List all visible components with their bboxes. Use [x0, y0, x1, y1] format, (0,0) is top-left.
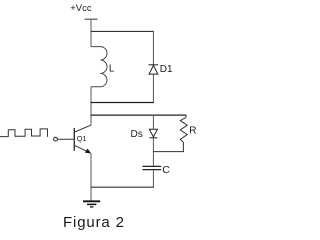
wire node rail upper — [91, 102, 154, 104]
wire top rail to D1 — [91, 30, 154, 32]
input terminal circle — [54, 137, 58, 141]
capacitor C — [142, 166, 161, 169]
wire ground rail — [91, 186, 154, 188]
wire Ds anode down — [152, 138, 154, 152]
transistor Q1 emitter arrowhead — [85, 149, 91, 154]
wire emitter to ground — [90, 153, 92, 201]
svg-text:D1: D1 — [160, 64, 173, 75]
wire node rail lower — [91, 114, 187, 116]
diode D1 — [149, 65, 159, 74]
svg-text:C: C — [162, 164, 170, 176]
wire capacitor to ground rail — [152, 170, 154, 188]
wire inductor bottom to collector node — [90, 87, 92, 126]
svg-text:L: L — [109, 64, 115, 75]
wire D1 anode branch — [152, 74, 154, 103]
svg-text:R: R — [189, 126, 196, 137]
svg-text:Q1: Q1 — [77, 134, 87, 143]
inductor L — [91, 47, 107, 87]
wire node B horizontal — [153, 151, 184, 153]
wire Ds branch — [152, 115, 154, 129]
svg-text:Ds: Ds — [131, 129, 143, 140]
svg-text:Figura 2: Figura 2 — [63, 214, 125, 231]
wire node B to capacitor — [152, 152, 154, 167]
wire D1 cathode branch — [152, 31, 154, 64]
Vcc power rail bar — [85, 18, 98, 20]
diode Ds — [149, 129, 157, 138]
transistor Q1 — [57, 125, 91, 152]
svg-text:+Vcc: +Vcc — [70, 3, 92, 14]
wire Vcc feed — [90, 19, 92, 46]
ground — [83, 201, 100, 207]
square-wave input signal — [0, 129, 48, 137]
resistor R — [180, 115, 187, 152]
